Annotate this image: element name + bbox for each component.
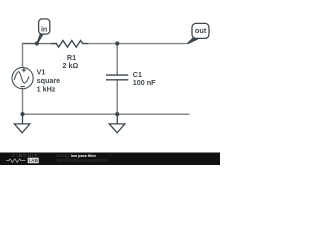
ground symbol right — [109, 114, 125, 133]
wire capacitor bottom to ground junction — [116, 80, 118, 114]
wire V1 bottom to ground junction — [22, 89, 24, 115]
footer logo squiggle — [6, 159, 25, 163]
svg-text:out: out — [195, 26, 207, 35]
wire junction to capacitor top — [116, 44, 118, 75]
voltage source V1 plus sign — [22, 68, 26, 72]
node in flag box — [39, 19, 50, 34]
ground symbol left — [14, 114, 30, 133]
voltage source V1 waveform glyph — [14, 72, 29, 83]
wire top-left horizontal (corner to in node) — [22, 43, 37, 45]
svg-text:http://circuitlab.com/c6u62l8b: http://circuitlab.com/c6u62l8b4xz — [56, 159, 108, 163]
svg-text:6u62l8 / low pass filter: 6u62l8 / low pass filter — [56, 154, 96, 158]
junction dot at node in — [35, 41, 39, 45]
junction dot resistor-capacitor node — [115, 41, 119, 45]
svg-text:in: in — [41, 26, 47, 33]
wire in node to resistor — [37, 43, 57, 45]
svg-text:LAB: LAB — [28, 158, 38, 163]
svg-text:100 nF: 100 nF — [133, 78, 156, 87]
voltage source V1 circle — [12, 68, 33, 89]
wire bottom horizontal ground net — [22, 113, 190, 115]
wire left vertical (corner to V1 top) — [22, 43, 24, 68]
node out flag pointer — [186, 37, 198, 44]
resistor R1 — [51, 41, 88, 48]
svg-text:1 kHz: 1 kHz — [37, 85, 56, 94]
capacitor C1 — [106, 75, 128, 80]
footer logo LAB box — [28, 158, 39, 164]
node out flag box — [192, 23, 209, 38]
svg-text:V1: V1 — [37, 67, 46, 76]
junction dot capacitor ground node — [115, 112, 119, 116]
footer bar — [0, 153, 220, 166]
node in flag pointer — [36, 34, 43, 45]
svg-text:2 kΩ: 2 kΩ — [63, 61, 79, 70]
voltage source V1 minus sign — [20, 86, 24, 88]
wire resistor to out node — [88, 43, 187, 45]
junction dot left ground node — [20, 112, 24, 116]
